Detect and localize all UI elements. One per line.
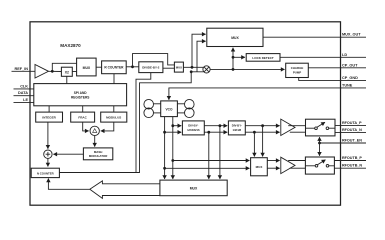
wire vco branch to mux2 upper <box>173 160 250 162</box>
node R tap <box>131 65 134 68</box>
wire div1 to div2 lower <box>204 131 227 133</box>
wire rfoutb_n <box>334 167 366 169</box>
wire frac to sigma <box>83 122 89 131</box>
node lock tap <box>232 68 235 71</box>
wire pfd to charge pump <box>210 68 284 70</box>
doubler X2 <box>61 67 72 76</box>
svg-text:MUX: MUX <box>231 36 239 40</box>
VCO <box>161 101 178 117</box>
wire lock detect out <box>280 56 366 58</box>
integer register <box>36 112 63 122</box>
pin LE <box>14 98 34 103</box>
wire divider to mux <box>163 67 175 69</box>
svg-text:LE: LE <box>23 98 28 102</box>
svg-text:R COUNTER: R COUNTER <box>104 65 124 69</box>
output buffer B <box>281 157 295 173</box>
wire spi to integer <box>48 106 50 112</box>
svg-text:MUX: MUX <box>83 66 91 70</box>
node vco branch upper <box>171 159 174 162</box>
SPI and registers <box>34 84 127 106</box>
switch box B <box>305 157 334 174</box>
wire feedback arrow to n counter <box>48 179 89 190</box>
wire R counter to SPI <box>113 74 115 84</box>
wire spi to modulus <box>113 106 115 112</box>
wire X2 to mux <box>72 71 77 73</box>
wire riser ref to muxout mux <box>192 34 206 67</box>
node div2 tap upper <box>261 124 264 127</box>
wire charge pump out <box>308 67 366 69</box>
svg-text:1/2/4/8: 1/2/4/8 <box>233 128 242 132</box>
modulus register <box>101 112 127 122</box>
svg-text:REGISTERS: REGISTERS <box>71 95 89 99</box>
wire summer to n counter <box>47 158 49 166</box>
wire mux to R counter <box>96 66 102 68</box>
frac register <box>71 112 95 122</box>
pin REF_IN <box>12 67 36 72</box>
mux2 output select <box>251 158 268 176</box>
chip outline border <box>30 22 341 205</box>
node vco tap lower <box>163 131 166 134</box>
svg-text:MUX: MUX <box>256 165 263 169</box>
wire div tap upper down <box>219 126 221 179</box>
wire riser N to muxout mux <box>197 41 206 72</box>
mux U2 pfd reference select <box>174 62 183 72</box>
switch box A <box>306 119 336 136</box>
phase frequency detector <box>203 66 210 73</box>
svg-text:LD: LD <box>342 53 347 57</box>
node vco tap upper <box>171 124 174 127</box>
wire buffer A to switch lower <box>290 131 306 133</box>
wire div tap lower down <box>208 132 210 179</box>
wire div2 to buffer upper <box>245 125 279 127</box>
sigma node <box>90 126 99 135</box>
node rfout_en tee <box>318 142 321 145</box>
muxout mux <box>207 28 263 46</box>
wire buffer to node <box>49 70 62 72</box>
inductor left <box>144 99 161 117</box>
charge pump <box>286 63 309 77</box>
pin DATA <box>14 91 34 96</box>
svg-text:N COUNTER: N COUNTER <box>37 172 54 176</box>
wire modulus to sigma <box>101 122 114 131</box>
wire rfout_en <box>320 142 367 144</box>
wire mux2 to buffer B lower <box>267 167 279 169</box>
node N tap <box>190 70 193 73</box>
wire buffer A to switch upper <box>288 125 305 127</box>
svg-text:X2: X2 <box>65 70 69 74</box>
R counter <box>102 61 127 74</box>
svg-text:FRAC: FRAC <box>78 116 87 120</box>
wire riser lock to muxout mux <box>232 48 234 70</box>
node lock detect tee <box>232 56 235 59</box>
svg-text:REF_IN: REF_IN <box>14 67 28 71</box>
svg-text:TUNE: TUNE <box>342 83 353 87</box>
wire vco out B down to mux <box>172 117 174 179</box>
wire rfoutb_p <box>334 160 366 162</box>
svg-text:SPI AND: SPI AND <box>74 91 88 95</box>
svg-text:RFOUT_EN: RFOUT_EN <box>342 139 362 143</box>
pin CLK <box>14 84 34 89</box>
wire div2 tap upper down <box>262 126 264 157</box>
divider 1 <box>182 121 204 135</box>
node vco branch lower <box>163 167 166 170</box>
svg-text:INTEGER: INTEGER <box>42 116 56 120</box>
svg-text:CLK: CLK <box>20 84 28 88</box>
wire buffer B to switch lower <box>290 167 306 169</box>
inductor right <box>177 99 194 117</box>
lock detect <box>246 54 280 62</box>
wire R counter to divider <box>126 66 139 68</box>
wire vco branch to mux2 lower <box>165 167 250 169</box>
divide-by-2 <box>139 62 163 73</box>
node div tap lower <box>207 131 210 134</box>
svg-text:DIVIDE-BY-2: DIVIDE-BY-2 <box>142 66 159 70</box>
wire muxout <box>263 36 366 38</box>
svg-text:RFOUTB_N: RFOUTB_N <box>342 164 362 168</box>
svg-text:1/2/4/8/16: 1/2/4/8/16 <box>187 128 200 132</box>
svg-text:MUX: MUX <box>190 187 198 191</box>
feedback mux <box>160 180 227 196</box>
svg-text:MODULUS: MODULUS <box>106 116 121 120</box>
N counter <box>31 168 59 177</box>
node ref junction <box>51 70 54 73</box>
svg-text:MAX2870: MAX2870 <box>60 43 81 48</box>
wire X2 to SPI <box>66 76 68 83</box>
svg-text:PUMP: PUMP <box>293 70 301 74</box>
wire mash to summer <box>53 153 83 155</box>
wire to lock detect <box>233 56 245 58</box>
wire rfouta_p <box>335 124 366 126</box>
wire spi to frac <box>82 106 84 112</box>
svg-text:RFOUTA_N: RFOUTA_N <box>342 128 362 132</box>
wire vco to div1 upper <box>173 125 181 127</box>
svg-text:MODULATOR: MODULATOR <box>89 154 108 158</box>
wire mux2 to buffer B upper <box>267 160 279 162</box>
wire enable to switch A <box>319 137 321 143</box>
wire doubler bypass <box>52 63 77 71</box>
wire buffer B to switch upper <box>288 160 305 162</box>
wire integer to summer <box>47 122 49 149</box>
wire cp gnd <box>299 78 366 81</box>
svg-text:DATA: DATA <box>18 91 28 95</box>
feedback block arrow <box>90 181 160 199</box>
wire div2 tap lower down <box>253 132 255 156</box>
svg-text:RFOUTB_P: RFOUTB_P <box>342 156 362 160</box>
svg-text:CP_GND: CP_GND <box>342 76 358 80</box>
mash modulator <box>83 148 112 160</box>
summer node <box>44 150 52 158</box>
wire rfouta_n <box>335 131 366 133</box>
wire enable to switch B <box>319 143 321 156</box>
node div tap upper <box>219 124 222 127</box>
wire div1 to div2 upper <box>204 125 227 127</box>
svg-text:RFOUTA_P: RFOUTA_P <box>342 121 362 125</box>
wire vco out A down to mux <box>164 117 166 179</box>
wire tune <box>169 88 366 100</box>
svg-text:VCO: VCO <box>166 107 173 111</box>
node ref tap to muxout <box>191 66 194 69</box>
reference input buffer <box>35 65 49 79</box>
wire divider output down to N counter <box>136 73 151 173</box>
divider 2 <box>228 121 245 135</box>
wire divide-by-2 bypass <box>133 54 175 67</box>
svg-text:CP_OUT: CP_OUT <box>342 63 358 67</box>
svg-text:MUX: MUX <box>176 66 182 70</box>
wire mux to pfd <box>183 66 203 68</box>
output buffer A <box>281 119 295 135</box>
wire vco to div1 lower <box>165 131 182 133</box>
wire N feedback to pfd <box>59 72 203 173</box>
wire sigma to mash <box>94 136 96 147</box>
svg-text:LOCK DETECT: LOCK DETECT <box>252 56 274 60</box>
wire div2 to buffer lower <box>245 131 279 133</box>
mux U1 reference select <box>77 58 97 76</box>
node div2 tap lower <box>253 131 256 134</box>
svg-text:MUX_OUT: MUX_OUT <box>342 33 361 37</box>
